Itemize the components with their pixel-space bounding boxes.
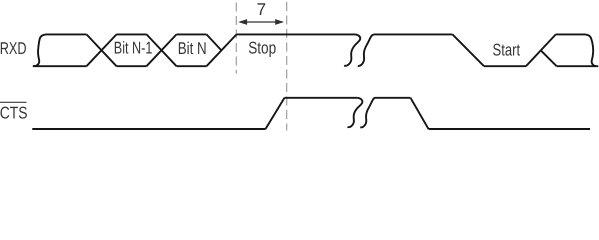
RXD start low rail	[484, 65, 526, 67]
svg-text:Stop: Stop	[248, 39, 276, 58]
RXD Bit N bottom rail	[177, 65, 207, 67]
RXD bus1 bottom rail	[33, 65, 87, 67]
RXD break squiggle right	[358, 34, 374, 65]
svg-text:Bit N: Bit N	[178, 39, 207, 58]
RXD rising edge to stop level	[207, 34, 237, 66]
RXD falling edge into start bit	[453, 34, 485, 66]
RXD final bus bottom rail	[557, 65, 599, 67]
RXD Bit N closing falling edge	[207, 34, 222, 50]
dimension arrowhead right	[275, 19, 284, 25]
RXD right cut squiggle	[585, 34, 596, 66]
RXD left cut squiggle	[33, 34, 46, 66]
CTS high rail after break	[375, 97, 411, 99]
CTS falling edge	[411, 98, 429, 129]
RXD crossover X2 rising	[147, 34, 177, 66]
RXD high rail after break	[374, 33, 453, 35]
RXD rising crossover line	[526, 34, 556, 66]
CTS rising edge	[266, 98, 285, 129]
svg-text:Start: Start	[493, 41, 521, 60]
RXD crossover opening branch	[541, 50, 557, 66]
CTS low rail left	[32, 128, 265, 130]
RXD stop high rail	[237, 33, 356, 35]
RXD Bit N-1 bottom rail	[117, 65, 147, 67]
RXD crossover X2 falling	[147, 34, 177, 66]
RXD final bus top rail	[556, 33, 585, 35]
dimension arrow shaft	[240, 21, 282, 23]
CTS high rail	[285, 97, 358, 99]
CTS break squiggle left	[348, 98, 363, 127]
marker dashed line left	[235, 3, 237, 74]
svg-text:RXD: RXD	[0, 39, 26, 58]
RXD Bit N-1 top rail	[117, 33, 147, 35]
dimension arrowhead left	[238, 19, 247, 25]
RXD Bit N top rail	[177, 33, 207, 35]
RXD break squiggle left	[344, 34, 360, 65]
svg-text:CTS: CTS	[0, 104, 27, 123]
label CTS overline	[0, 101, 27, 103]
CTS low rail right	[429, 128, 591, 130]
CTS break squiggle right	[360, 98, 375, 128]
RXD bus1 top rail	[46, 33, 87, 35]
marker dashed line right	[286, 2, 288, 131]
RXD crossover X1 rising	[87, 34, 117, 66]
svg-text:7: 7	[257, 0, 266, 19]
RXD crossover X1 falling	[87, 34, 117, 66]
svg-text:Bit N-1: Bit N-1	[114, 38, 153, 57]
